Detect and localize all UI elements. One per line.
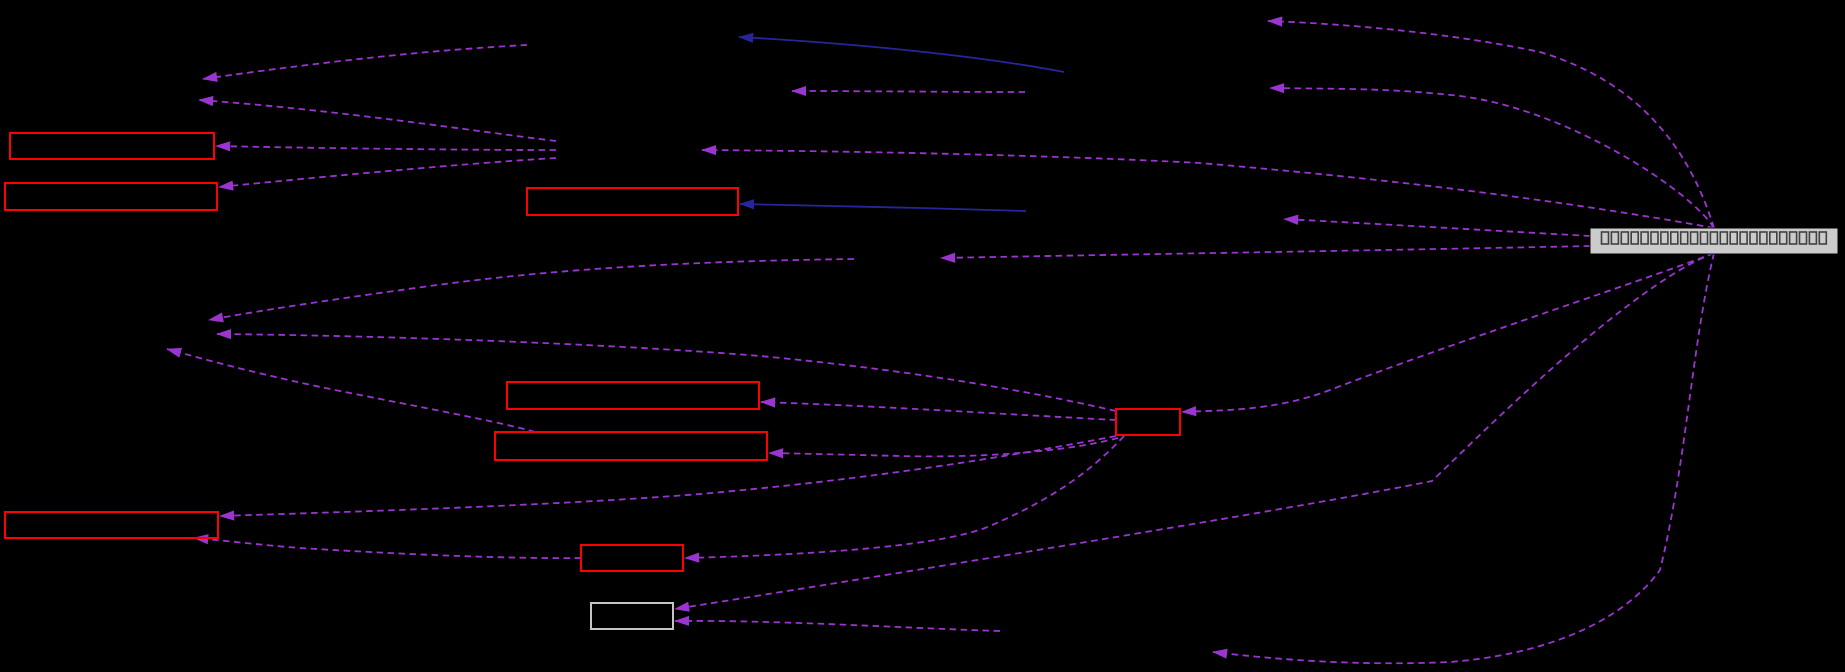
wire edge H to box D	[761, 402, 1116, 420]
wire edge grey to node N1	[941, 246, 1590, 258]
wire edge grey to node V1	[1284, 219, 1590, 236]
box B	[5, 183, 217, 210]
wire edge W to box I lower	[675, 621, 1000, 631]
wire navy edge V2 to node U	[739, 37, 1064, 72]
wire edge H to box G	[685, 436, 1124, 558]
wire edge H to box F	[220, 436, 1116, 516]
box G	[581, 545, 683, 571]
wire edge grey to box I upper	[675, 253, 1714, 609]
box F	[5, 512, 218, 538]
box H	[1116, 409, 1180, 435]
box A	[10, 133, 214, 159]
wire edge grey to M	[702, 150, 1714, 228]
wire edge grey to node a22	[1270, 88, 1714, 228]
wire edge M to node a2	[199, 100, 556, 141]
wire edge M to box B	[219, 158, 556, 187]
wire edge E to node a10	[167, 349, 535, 432]
box D	[507, 382, 759, 409]
wire edge G to box F bottom	[194, 538, 581, 558]
box C	[527, 188, 738, 215]
wire edge H to box E	[769, 438, 1118, 456]
box I	[591, 603, 673, 629]
wire edge grey to box H	[1182, 253, 1714, 412]
box E	[495, 432, 767, 460]
wire edge M to box A	[216, 146, 556, 150]
grey main node	[1590, 228, 1838, 254]
wire edge U to node a1	[203, 45, 527, 79]
tofu glyph row in grey node	[1602, 232, 1827, 244]
wire edge grey to node a21 top	[1268, 21, 1714, 228]
wire edge grey bottom arc to node W	[1213, 253, 1714, 663]
wire edge H to node a9	[217, 334, 1116, 411]
wire edge N1 to node a8	[209, 259, 854, 320]
wire navy edge V1 to box C	[740, 204, 1026, 211]
wire edge X to node a20	[792, 91, 1025, 92]
